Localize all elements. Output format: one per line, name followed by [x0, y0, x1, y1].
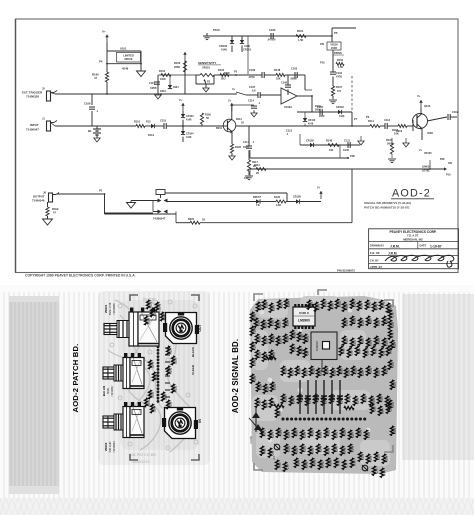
svg-text:R148: R148: [326, 140, 333, 143]
svg-text:V+: V+: [317, 186, 321, 190]
svg-text:APPR. BY: APPR. BY: [370, 265, 383, 269]
svg-text:U101: U101: [120, 47, 127, 51]
svg-text:R102: R102: [337, 59, 344, 62]
svg-text:R11B: R11B: [52, 207, 59, 211]
svg-text:C166: C166: [281, 82, 288, 85]
svg-text:.047/50: .047/50: [267, 39, 276, 42]
svg-text:R106: R106: [174, 61, 181, 65]
svg-text:CR5B: CR5B: [150, 87, 157, 90]
svg-text:COPYRIGHT 1989 PEAVEY ELECTRON: COPYRIGHT 1989 PEAVEY ELECTRONICS CORP. …: [25, 273, 136, 277]
svg-text:C160: C160: [269, 28, 276, 32]
svg-text:4148: 4148: [339, 115, 345, 118]
svg-text:C114: C114: [248, 100, 254, 103]
svg-text:R167: R167: [336, 86, 343, 89]
svg-text:10/30: 10/30: [343, 149, 350, 152]
svg-text:J.R.M.: J.R.M.: [388, 251, 398, 255]
svg-text:J.R.M.: J.R.M.: [390, 244, 400, 248]
svg-text:P08: P08: [440, 158, 445, 161]
svg-text:P7: P7: [354, 117, 358, 121]
svg-text:CR100: CR100: [219, 44, 228, 48]
svg-text:C11B: C11B: [452, 110, 459, 114]
svg-text:P10: P10: [320, 61, 325, 65]
svg-text:SENSITIVITY: SENSITIVITY: [198, 61, 216, 65]
svg-text:1-19-87: 1-19-87: [430, 244, 442, 248]
svg-text:.068M: .068M: [290, 78, 297, 81]
svg-text:MERIDIAN, MS: MERIDIAN, MS: [403, 237, 423, 241]
svg-text:4549: 4549: [122, 67, 129, 71]
svg-text:CR108: CR108: [293, 196, 301, 199]
svg-text:R021: R021: [188, 217, 195, 221]
svg-text:47/50: 47/50: [336, 76, 343, 79]
svg-text:P3: P3: [234, 70, 238, 74]
svg-text:4148: 4148: [186, 136, 192, 139]
svg-text:R111: R111: [368, 119, 374, 123]
svg-text:300K: 300K: [315, 108, 321, 111]
svg-text:R110: R110: [134, 120, 141, 124]
svg-text:P/N 81508972: P/N 81508972: [337, 269, 355, 273]
svg-text:20PF: 20PF: [319, 115, 325, 118]
svg-text:1.5K: 1.5K: [338, 66, 343, 69]
svg-text:CR101: CR101: [243, 48, 252, 52]
svg-text:1N34: 1N34: [173, 86, 179, 89]
svg-text:9V4B: 9V4B: [331, 47, 337, 50]
svg-text:71456047: 71456047: [26, 128, 39, 132]
svg-text:CR105: CR105: [306, 140, 314, 143]
svg-text:FSB: FSB: [350, 155, 355, 158]
svg-text:4148: 4148: [244, 44, 250, 48]
svg-text:3.3K: 3.3K: [276, 204, 281, 207]
svg-text:4148: 4148: [308, 122, 314, 125]
svg-text:V+: V+: [228, 99, 232, 103]
svg-text:10K: 10K: [394, 132, 399, 136]
svg-text:C113: C113: [286, 129, 293, 133]
svg-text:2K2: 2K2: [221, 78, 226, 81]
svg-text:CR102: CR102: [336, 106, 344, 109]
svg-text:C110: C110: [160, 119, 167, 123]
svg-text:SIGNAL BD.#80868721 (5-30-89): SIGNAL BD.#80868721 (5-30-89): [364, 201, 411, 205]
svg-text:.47/50: .47/50: [248, 76, 255, 79]
svg-text:R114: R114: [243, 146, 249, 149]
svg-text:4009: 4009: [427, 131, 433, 135]
svg-text:ON: ON: [320, 42, 324, 46]
svg-text:1N34: 1N34: [160, 90, 166, 93]
svg-text:V+: V+: [232, 87, 236, 91]
svg-text:DRIVE: DRIVE: [334, 51, 342, 55]
svg-text:2K: 2K: [256, 172, 259, 175]
svg-text:1K: 1K: [241, 122, 244, 125]
svg-text:P1: P1: [99, 189, 103, 193]
svg-text:D113: D113: [148, 133, 155, 137]
svg-text:DATE: DATE: [420, 244, 427, 248]
svg-text:100K: 100K: [160, 78, 166, 81]
svg-text:4148: 4148: [186, 118, 192, 121]
svg-text:P4: P4: [99, 60, 103, 64]
svg-text:10K: 10K: [244, 177, 249, 180]
svg-text:R104: R104: [159, 70, 166, 73]
svg-text:B1: B1: [88, 129, 92, 133]
svg-text:BRU5T: BRU5T: [253, 196, 262, 199]
svg-text:C167: C167: [249, 85, 256, 89]
svg-text:V+: V+: [419, 149, 423, 152]
svg-text:V+: V+: [102, 30, 106, 34]
svg-text:1.5K: 1.5K: [298, 39, 303, 42]
svg-text:10K: 10K: [276, 78, 281, 81]
svg-text:U100A: U100A: [284, 105, 292, 109]
svg-text:R115: R115: [392, 128, 399, 132]
svg-text:47: 47: [94, 76, 98, 80]
svg-text:C169: C169: [84, 102, 91, 106]
svg-text:C121: C121: [344, 140, 351, 143]
svg-text:CR106: CR106: [308, 120, 316, 122]
svg-text:P1A: P1A: [446, 174, 451, 177]
svg-text:LINKS: LINKS: [422, 166, 430, 169]
svg-text:AOD-2: AOD-2: [392, 188, 431, 200]
svg-text:VR101: VR101: [202, 66, 210, 70]
svg-text:51K: 51K: [329, 149, 334, 152]
svg-text:1K: 1K: [202, 218, 205, 222]
svg-text:74386047: 74386047: [153, 217, 166, 221]
svg-text:200K: 200K: [174, 65, 180, 69]
svg-text:C112: C112: [384, 118, 391, 122]
svg-text:R120: R120: [274, 196, 281, 199]
svg-text:R11B: R11B: [235, 146, 241, 149]
svg-text:P5: P5: [334, 31, 338, 35]
svg-text:B401: B401: [216, 127, 223, 130]
svg-text:INPUT: INPUT: [30, 123, 39, 127]
svg-text:E.B. OK: E.B. OK: [370, 251, 380, 255]
svg-text:V+: V+: [417, 94, 421, 98]
svg-text:ON: ON: [448, 162, 452, 165]
svg-text:474: 474: [337, 90, 342, 93]
svg-text:VR125: VR125: [424, 152, 432, 155]
svg-text:P6: P6: [366, 115, 370, 119]
svg-text:4148: 4148: [221, 48, 227, 52]
svg-text:C114: C114: [243, 140, 250, 144]
svg-text:71456046: 71456046: [32, 199, 45, 203]
svg-text:R113: R113: [254, 164, 260, 167]
svg-text:R101: R101: [297, 29, 304, 33]
svg-text:5K: 5K: [206, 117, 209, 120]
svg-text:V+: V+: [179, 98, 183, 102]
svg-text:R105: R105: [218, 68, 225, 72]
svg-text:71456328: 71456328: [26, 95, 39, 99]
svg-text:74L: 74L: [256, 204, 261, 207]
svg-text:PATCH BD.#80868718 (7-28-87): PATCH BD.#80868718 (7-28-87): [364, 206, 409, 210]
svg-text:C163: C163: [291, 67, 298, 71]
svg-text:6.8: 6.8: [252, 90, 256, 93]
svg-text:DRAWN BY: DRAWN BY: [370, 244, 384, 248]
svg-text:LEVEL: LEVEL: [422, 170, 431, 173]
svg-text:Q100: Q100: [424, 104, 431, 108]
svg-text:LIMITED: LIMITED: [123, 54, 134, 58]
svg-text:R148: R148: [274, 68, 281, 72]
svg-text:CH. BY: CH. BY: [370, 258, 379, 262]
svg-text:C169: C169: [249, 68, 256, 72]
svg-text:DRIVE: DRIVE: [125, 57, 133, 61]
svg-text:C104: C104: [149, 82, 155, 85]
svg-text:P12: P12: [146, 120, 151, 124]
svg-text:P100: P100: [213, 28, 220, 32]
